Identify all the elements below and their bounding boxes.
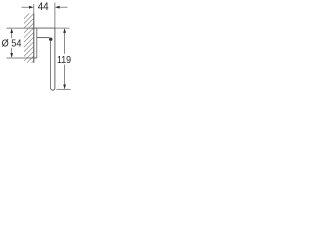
- post rounded bottom: [51, 88, 55, 90]
- dim 119: up arrowhead: [63, 28, 66, 33]
- dim diameter 54: lower shaft: [11, 48, 13, 57]
- dim diameter 54: bottom extension line: [7, 57, 34, 59]
- rosette bottom edge: [34, 57, 37, 59]
- dim diameter 54: upper shaft: [11, 29, 13, 38]
- svg-text:44: 44: [38, 1, 49, 13]
- dim 44: left stub line: [22, 6, 30, 8]
- dim 119: lower shaft: [64, 65, 66, 89]
- dim diameter 54: up arrowhead: [10, 29, 13, 34]
- wall face line: [33, 14, 35, 63]
- dim 44: left extension line above wall: [33, 4, 35, 14]
- holder top edge (arm top, wall to front): [34, 27, 55, 29]
- post inner edge: [50, 40, 52, 88]
- dim 119: top extension line: [55, 27, 70, 29]
- dim 44: right arrowhead pointing left: [55, 6, 60, 9]
- dim 44: right stub line: [60, 6, 68, 8]
- post front edge: [54, 28, 56, 88]
- svg-text:Ø 54: Ø 54: [2, 38, 22, 50]
- wall hatching: [24, 9, 34, 71]
- dim diameter 54: down arrowhead: [10, 53, 13, 58]
- dim 119: upper shaft: [64, 29, 66, 54]
- dim 119: bottom extension line: [57, 88, 71, 90]
- rosette front edge: [36, 28, 38, 58]
- dim 44: left arrowhead pointing right: [29, 6, 34, 9]
- knob at arm-post junction: [49, 38, 52, 41]
- arm bottom edge with fillet into post: [37, 37, 50, 39]
- dim diameter 54: top extension line: [7, 27, 34, 29]
- dim 119: down arrowhead: [63, 85, 66, 90]
- dim 44: right extension line (front face extended up): [54, 3, 56, 29]
- svg-text:119: 119: [57, 54, 71, 66]
